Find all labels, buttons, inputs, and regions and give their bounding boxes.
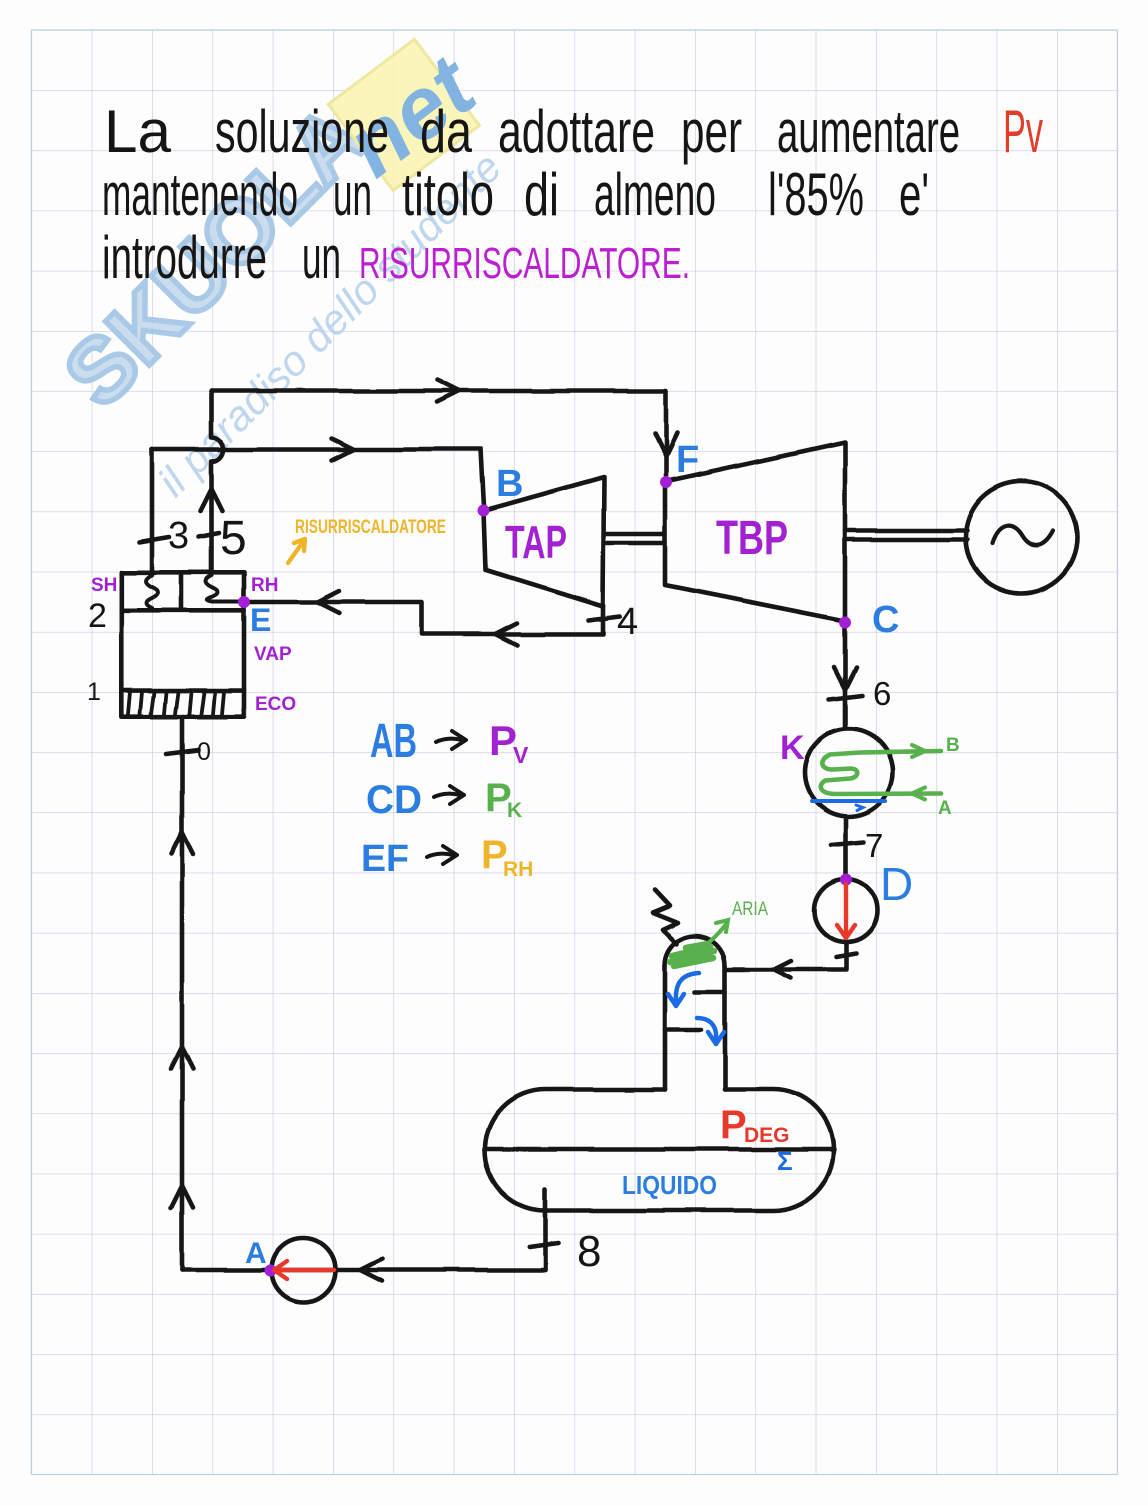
node C (839, 617, 851, 629)
arrow left into degasser (774, 961, 791, 978)
svg-text:K: K (780, 729, 805, 767)
svg-text:Σ: Σ (777, 1146, 793, 1176)
svg-text:RH: RH (503, 858, 533, 881)
arrow down into F (655, 433, 677, 456)
legend arrow CD (434, 786, 464, 804)
arrow left on RH return (left part) (317, 591, 339, 613)
turbine TBP (665, 442, 845, 621)
handwritten paragraph line 1 (104, 98, 1043, 165)
wire: TAP exhaust 4 to boiler RH inlet E (244, 602, 603, 634)
svg-text:V: V (513, 742, 529, 768)
svg-text:B: B (946, 735, 960, 756)
tick 6 (829, 695, 862, 699)
tick below pump D (836, 954, 856, 958)
wire: condenser to pump D (844, 817, 849, 880)
svg-text:titolo: titolo (402, 161, 494, 228)
svg-text:RISURRISCALDATORE: RISURRISCALDATORE (295, 517, 446, 538)
degasser baffle upper (695, 989, 725, 994)
svg-text:AB: AB (370, 715, 417, 768)
SH coil (146, 575, 158, 608)
svg-text:CD: CD (366, 778, 422, 822)
handwritten paragraph line 2 (102, 161, 929, 228)
tick 4 (588, 616, 620, 620)
handwritten paragraph line 3 (102, 224, 690, 291)
arrow up riser 3 (171, 1186, 193, 1208)
condenser cooling coil (green) (821, 745, 941, 800)
svg-text:LIQUIDO: LIQUIDO (622, 1170, 717, 1200)
arrow right on top wire (437, 380, 459, 402)
svg-text:e': e' (899, 161, 929, 228)
svg-text:3: 3 (168, 515, 189, 557)
degasser dome and column (665, 936, 725, 966)
tank liquid level line (484, 1147, 834, 1152)
wire: RH outlet to TBP inlet (top run) (212, 391, 667, 476)
node D inlet (840, 874, 852, 886)
svg-text:RH: RH (251, 575, 278, 596)
svg-text:E: E (250, 602, 271, 638)
watermark skuola.net (39, 0, 545, 505)
svg-text:per: per (681, 98, 742, 165)
wire: TBP exhaust C to condenser (843, 621, 848, 728)
svg-text:0: 0 (197, 738, 211, 766)
tick 3 (139, 537, 169, 542)
arrow up on line 5 (201, 489, 223, 511)
svg-text:almeno: almeno (594, 161, 716, 228)
pump A (272, 1238, 336, 1302)
svg-text:un: un (302, 224, 341, 291)
svg-text:VAP: VAP (254, 644, 292, 665)
boiler line level 2 (121, 608, 244, 613)
svg-text:ECO: ECO (255, 694, 296, 715)
ECO hatch (128, 692, 224, 714)
svg-text:7: 7 (865, 827, 883, 864)
svg-text:P: P (720, 1103, 747, 1147)
wire: line 5 (RH riser) with hop (212, 391, 224, 572)
wire: tank outlet 8 (543, 1189, 548, 1270)
svg-text:A: A (938, 798, 952, 819)
svg-text:1: 1 (87, 678, 101, 706)
RH coil (206, 575, 244, 602)
pump A red arrow (274, 1261, 334, 1279)
svg-text:4: 4 (617, 601, 638, 643)
svg-text:TBP: TBP (716, 512, 788, 565)
shaft TBP-generator (845, 531, 967, 540)
arrow right on SH wire (332, 439, 354, 461)
degasser baffle lower (665, 1027, 701, 1032)
svg-text:mantenendo: mantenendo (102, 161, 298, 228)
tick 8 (529, 1243, 558, 1247)
node F (660, 476, 672, 488)
svg-text:B: B (496, 463, 523, 505)
arrow left on RH return (right part) (495, 623, 517, 645)
svg-text:SH: SH (91, 575, 117, 596)
turbine TAP (484, 477, 604, 606)
wire: pump D to degasser (727, 942, 846, 970)
svg-text:di: di (524, 161, 559, 228)
svg-text:EF: EF (361, 838, 409, 880)
boiler shell (121, 572, 244, 716)
boiler line level 1 (121, 688, 244, 693)
pump D red arrow (837, 884, 855, 938)
arrow up riser 2 (171, 1047, 193, 1069)
svg-text:l'85%: l'85% (768, 161, 864, 228)
node E (238, 596, 250, 608)
svg-text:soluzione: soluzione (215, 98, 389, 165)
tick 0 (166, 750, 198, 754)
svg-text:aumentare: aumentare (777, 98, 960, 165)
svg-text:da: da (420, 98, 472, 165)
labels group (87, 439, 960, 1276)
degasser air scribble (green) (670, 920, 728, 966)
degasser tank shell (485, 1090, 834, 1211)
wire: feedwater riser (180, 717, 185, 1270)
svg-text:C: C (872, 599, 899, 641)
tick 7 (831, 842, 864, 845)
arrow left on bottom run (360, 1259, 382, 1281)
shaft TAP-TBP (604, 534, 665, 543)
condenser K shell (805, 729, 893, 817)
generator G (966, 482, 1078, 594)
arrow up riser 1 (171, 832, 193, 854)
risurriscaldatore arrow (yellow) (288, 539, 305, 563)
boiler SH/RH divider (179, 572, 184, 610)
svg-text:A: A (245, 1237, 267, 1270)
legend arrow EF (427, 846, 457, 864)
node B (478, 505, 490, 517)
svg-text:2: 2 (88, 597, 107, 635)
svg-text:K: K (507, 799, 522, 822)
condensate level (blue) (812, 801, 885, 811)
arrow down to condenser (834, 667, 856, 689)
svg-text:F: F (676, 439, 699, 481)
svg-text:TAP: TAP (505, 516, 567, 568)
svg-text:RISURRISCALDATORE.: RISURRISCALDATORE. (359, 239, 690, 288)
legend arrow AB (436, 731, 466, 749)
svg-text:un: un (333, 161, 372, 228)
wire: SH outlet to TAP inlet (152, 450, 484, 508)
svg-text:D: D (880, 858, 913, 910)
svg-text:5: 5 (220, 512, 247, 565)
svg-text:Pv: Pv (1003, 98, 1043, 165)
vent valve zigzag (653, 890, 678, 944)
svg-text:ARIA: ARIA (732, 899, 768, 920)
wire: line 3 (SH riser) (150, 450, 155, 573)
svg-text:6: 6 (873, 675, 891, 712)
node A outlet (265, 1265, 277, 1277)
svg-text:La: La (104, 98, 172, 165)
svg-text:8: 8 (577, 1227, 601, 1276)
tick 5 (199, 533, 219, 537)
svg-text:introdurre: introdurre (102, 224, 267, 291)
wire: bottom run to pump A (182, 1268, 545, 1273)
pump D (815, 879, 878, 942)
svg-text:adottare: adottare (498, 98, 655, 165)
svg-text:DEG: DEG (744, 1124, 790, 1147)
degasser internal flow arrows (blue) (668, 973, 724, 1044)
